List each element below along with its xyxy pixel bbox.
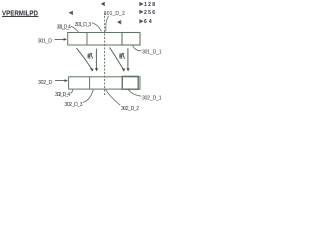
svg-text:302_D: 302_D: [38, 80, 52, 86]
svg-text:256: 256: [144, 10, 155, 16]
svg-text:64: 64: [144, 19, 152, 25]
svg-text:301_D_3: 301_D_3: [75, 22, 92, 28]
svg-text:301_D_1: 301_D_1: [142, 49, 162, 55]
svg-text:302_D_3: 302_D_3: [65, 102, 83, 108]
svg-text:302_D_1: 302_D_1: [142, 96, 162, 102]
svg-text:302_D_4: 302_D_4: [55, 92, 70, 98]
svg-text:301_D: 301_D: [38, 38, 52, 44]
svg-text:301_D_2: 301_D_2: [104, 11, 125, 17]
svg-text:302_D_2: 302_D_2: [121, 106, 139, 112]
svg-text:301_D_4: 301_D_4: [57, 25, 71, 31]
svg-text:128: 128: [144, 2, 155, 8]
